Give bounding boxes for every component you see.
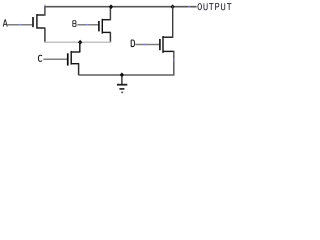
junction dot ground <box>120 72 124 77</box>
transistor QD drain stub <box>163 36 174 38</box>
transistor QD gate bar <box>159 39 161 50</box>
wire QA drain to rail <box>44 6 46 16</box>
wire QC drain up <box>79 42 81 52</box>
wire QD source down <box>173 51 175 75</box>
transistor QD source stub <box>163 50 175 52</box>
wire QC source down <box>78 64 80 76</box>
ground <box>121 77 123 85</box>
transistor QC drain stub <box>71 51 81 53</box>
wire bottom node <box>79 74 175 76</box>
wire B gate <box>77 24 98 26</box>
wire QB source down <box>109 32 111 42</box>
node OUTPUT label <box>198 3 231 10</box>
node C label <box>38 55 42 61</box>
node A label <box>3 20 7 27</box>
transistor QA source stub <box>36 27 45 29</box>
wire D gate <box>135 44 159 46</box>
wire QB drain to rail <box>109 6 111 20</box>
transistor QC gate bar <box>67 53 69 65</box>
transistor QA gate bar <box>32 17 34 27</box>
wire QD drain to rail <box>172 6 174 37</box>
transistor QB channel <box>102 19 103 34</box>
wire C gate <box>43 58 67 60</box>
node B label <box>73 21 76 27</box>
transistor QC channel <box>71 51 72 65</box>
transistor QB source stub <box>102 31 111 33</box>
wire QA source down <box>44 28 46 42</box>
transistor QA channel <box>36 14 37 28</box>
junction dot rail-D <box>170 4 174 9</box>
node D label <box>131 40 135 47</box>
junction dot middle-C <box>78 40 82 45</box>
transistor QB drain stub <box>102 19 111 21</box>
transistor QB gate bar <box>98 21 100 31</box>
wire A gate <box>7 24 32 26</box>
junction dot rail-B <box>109 4 113 9</box>
wire middle node <box>44 41 111 43</box>
transistor QA drain stub <box>36 14 45 16</box>
transistor QC source stub <box>71 63 80 65</box>
transistor QD channel <box>162 36 163 53</box>
wire top rail <box>44 6 196 8</box>
